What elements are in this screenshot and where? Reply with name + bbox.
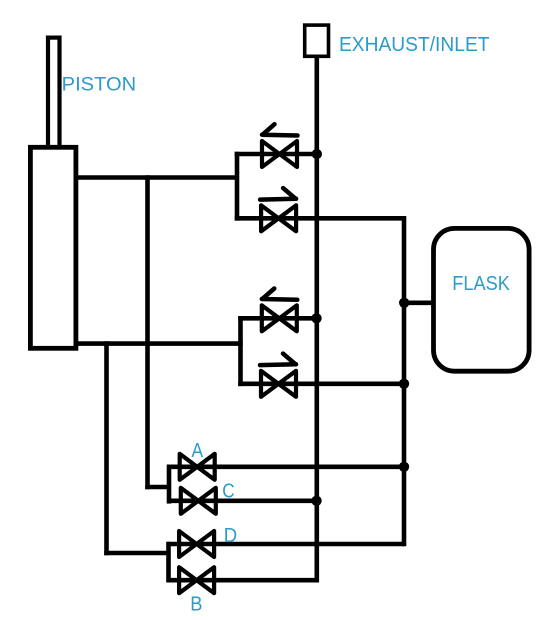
svg-text:A: A bbox=[192, 440, 204, 462]
svg-text:FLASK: FLASK bbox=[452, 273, 510, 295]
svg-text:PISTON: PISTON bbox=[62, 73, 137, 95]
svg-text:B: B bbox=[190, 593, 202, 615]
svg-text:C: C bbox=[222, 480, 234, 502]
svg-text:D: D bbox=[224, 525, 237, 547]
svg-text:EXHAUST/INLET: EXHAUST/INLET bbox=[339, 34, 490, 56]
